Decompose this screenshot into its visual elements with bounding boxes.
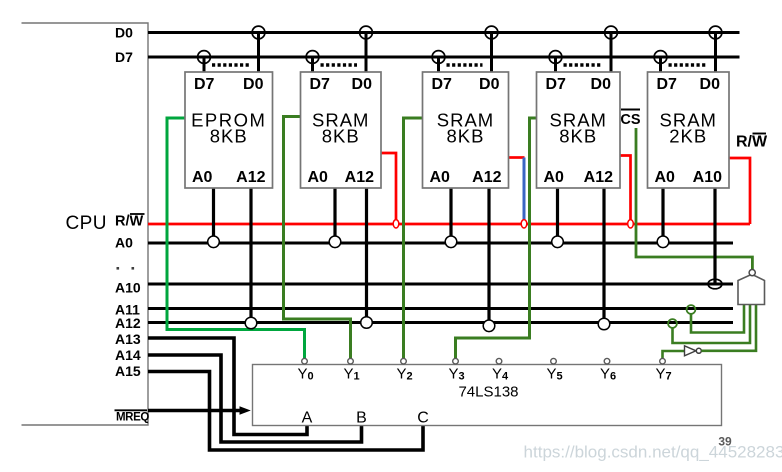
- svg-text:A12: A12: [115, 315, 141, 331]
- svg-text:A0: A0: [430, 169, 451, 186]
- svg-text:D7: D7: [657, 76, 678, 93]
- svg-text:A13: A13: [115, 331, 141, 347]
- svg-text:D0: D0: [352, 76, 373, 93]
- svg-text:D0: D0: [700, 76, 721, 93]
- svg-text:A0: A0: [308, 169, 329, 186]
- svg-text:https://blog.csdn.net/qq_44528: https://blog.csdn.net/qq_44528283: [524, 443, 782, 462]
- svg-text:A14: A14: [115, 347, 141, 363]
- svg-text:D7: D7: [194, 76, 215, 93]
- svg-text:R/W: R/W: [115, 214, 144, 230]
- svg-text:A0: A0: [544, 169, 565, 186]
- svg-text:39: 39: [718, 435, 732, 449]
- svg-text:CPU: CPU: [66, 213, 107, 234]
- svg-text:8KB: 8KB: [447, 126, 485, 147]
- svg-text:D7: D7: [115, 49, 133, 65]
- svg-text:A12: A12: [472, 169, 501, 186]
- svg-text:D0: D0: [479, 76, 500, 93]
- svg-text:D0: D0: [243, 76, 264, 93]
- svg-text:8KB: 8KB: [210, 126, 248, 147]
- svg-text:A0: A0: [655, 169, 676, 186]
- svg-text:D7: D7: [310, 76, 331, 93]
- svg-text:74LS138: 74LS138: [458, 384, 518, 401]
- svg-text:A10: A10: [115, 280, 141, 296]
- svg-text:MREQ: MREQ: [116, 411, 149, 423]
- svg-text:A: A: [302, 410, 313, 427]
- svg-text:D0: D0: [115, 25, 133, 41]
- svg-text:A15: A15: [115, 363, 141, 379]
- svg-text:A12: A12: [345, 169, 374, 186]
- svg-text:A0: A0: [192, 169, 213, 186]
- svg-text:8KB: 8KB: [559, 126, 597, 147]
- svg-text:A0: A0: [115, 235, 133, 251]
- svg-text:C: C: [417, 410, 429, 427]
- svg-text:D7: D7: [432, 76, 453, 93]
- svg-text:8KB: 8KB: [322, 126, 360, 147]
- svg-text:A10: A10: [693, 169, 722, 186]
- svg-text:D7: D7: [546, 76, 567, 93]
- svg-text:A12: A12: [236, 169, 265, 186]
- svg-text:2KB: 2KB: [669, 126, 707, 147]
- svg-text:CS: CS: [620, 112, 640, 128]
- svg-text:D0: D0: [591, 76, 612, 93]
- svg-text:A12: A12: [584, 169, 613, 186]
- svg-text:R/W: R/W: [736, 134, 768, 151]
- svg-text:B: B: [356, 410, 367, 427]
